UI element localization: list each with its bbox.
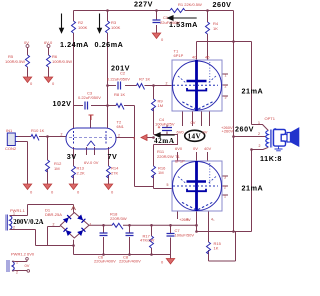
svg-text:22uF/050V: 22uF/050V: [160, 20, 180, 25]
svg-text:1: 1: [16, 261, 18, 265]
svg-text:6V0: 6V0: [177, 129, 185, 134]
svg-text:220uF/400V: 220uF/400V: [119, 259, 141, 264]
svg-text:1M: 1M: [158, 170, 164, 175]
svg-text:1K: 1K: [213, 26, 218, 31]
svg-text:47K/2W: 47K/2W: [140, 238, 154, 243]
svg-text:27K: 27K: [111, 171, 118, 176]
svg-text:21mA: 21mA: [242, 87, 264, 96]
svg-text:1: 1: [13, 212, 15, 216]
svg-text:C2: C2: [120, 71, 126, 76]
svg-text:21mA: 21mA: [242, 184, 264, 193]
svg-text:45: 45: [205, 55, 210, 60]
svg-text:2: 2: [61, 133, 63, 137]
svg-text:2: 2: [259, 144, 261, 148]
svg-text:6P1P: 6P1P: [175, 159, 185, 164]
svg-text:102V: 102V: [53, 99, 72, 108]
svg-text:2: 2: [224, 186, 226, 190]
svg-text:DBR-25A: DBR-25A: [45, 212, 62, 217]
svg-text:1.24mA: 1.24mA: [60, 40, 89, 49]
svg-text:220R/2W: 220R/2W: [157, 154, 174, 159]
svg-text:2: 2: [118, 134, 120, 138]
svg-text:0V: 0V: [25, 263, 30, 268]
svg-text:260V: 260V: [235, 124, 254, 133]
svg-text:+260V: +260V: [222, 129, 234, 134]
svg-text:4₅: 4₅: [211, 218, 215, 222]
svg-text:1M: 1M: [158, 103, 164, 108]
svg-text:0.22uF/050V: 0.22uF/050V: [107, 77, 130, 82]
svg-text:0.22uF/050V: 0.22uF/050V: [78, 95, 101, 100]
svg-text:IN1: IN1: [6, 128, 13, 133]
svg-text:260V: 260V: [213, 0, 232, 9]
svg-text:100uF/50V: 100uF/50V: [175, 232, 195, 237]
svg-text:R1 22K/0.5W: R1 22K/0.5W: [178, 2, 202, 7]
svg-text:100R/0.5W: 100R/0.5W: [52, 59, 72, 64]
svg-text:2: 2: [13, 226, 15, 230]
svg-text:6P1P: 6P1P: [174, 53, 184, 58]
svg-text:5: 5: [167, 183, 169, 187]
svg-text:1M: 1M: [54, 166, 60, 171]
svg-text:6N1: 6N1: [117, 124, 125, 129]
svg-text:1: 1: [225, 74, 227, 78]
svg-text:2: 2: [16, 271, 18, 275]
svg-text:42mA: 42mA: [154, 137, 175, 145]
svg-text:2: 2: [258, 132, 260, 136]
svg-text:R8 1K: R8 1K: [114, 92, 125, 97]
svg-text:CON2: CON2: [5, 146, 17, 151]
svg-text:40V: 40V: [204, 146, 211, 151]
svg-text:OPT1: OPT1: [265, 116, 276, 121]
svg-text:0V: 0V: [193, 146, 198, 151]
svg-text:1: 1: [90, 223, 92, 227]
svg-text:11K:8: 11K:8: [260, 154, 282, 163]
svg-text:3: 3: [224, 176, 226, 180]
svg-text:6V0: 6V0: [27, 252, 35, 257]
svg-text:100R/0.5W: 100R/0.5W: [5, 59, 25, 64]
svg-text:100K: 100K: [78, 25, 88, 30]
svg-text:6V-0: 6V-0: [84, 160, 93, 165]
svg-text:2.2K: 2.2K: [77, 171, 86, 176]
svg-text:2: 2: [53, 223, 55, 227]
svg-text:220R/3W: 220R/3W: [110, 216, 127, 221]
svg-text:100K: 100K: [111, 25, 121, 30]
svg-text:4₀: 4₀: [186, 218, 190, 222]
svg-text:1: 1: [224, 195, 226, 199]
svg-text:0.26mA: 0.26mA: [95, 40, 124, 49]
svg-text:3V: 3V: [67, 152, 77, 161]
svg-text:PWR1.2: PWR1.2: [11, 252, 27, 257]
svg-text:40: 40: [192, 55, 197, 60]
svg-text:R7 1K: R7 1K: [139, 77, 150, 82]
svg-text:200V/0.2A: 200V/0.2A: [13, 219, 43, 226]
svg-text:14V: 14V: [188, 132, 202, 140]
svg-text:1: 1: [258, 121, 260, 125]
svg-text:100uF/25V: 100uF/25V: [155, 121, 175, 126]
svg-text:220uF/400V: 220uF/400V: [94, 259, 116, 264]
svg-text:7V: 7V: [108, 152, 118, 161]
svg-text:R10 1K: R10 1K: [31, 128, 45, 133]
svg-text:3: 3: [225, 96, 227, 100]
svg-text:6V0: 6V0: [175, 146, 183, 151]
svg-text:2: 2: [166, 82, 168, 86]
svg-text:0V: 0V: [94, 160, 99, 165]
svg-text:0V: 0V: [24, 40, 29, 45]
svg-text:227V: 227V: [134, 0, 153, 9]
svg-text:1K: 1K: [214, 246, 219, 251]
svg-text:0V: 0V: [203, 129, 208, 134]
svg-text:6V-0: 6V-0: [44, 40, 53, 45]
svg-text:2: 2: [225, 85, 227, 89]
svg-text:0V: 0V: [191, 120, 196, 125]
